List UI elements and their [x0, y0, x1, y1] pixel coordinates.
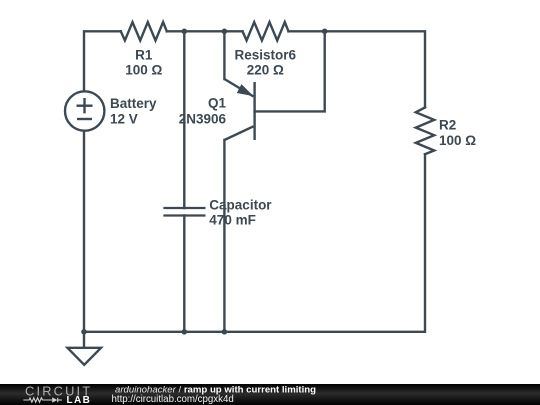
wire Q1 collector down to bottom rail — [223, 140, 225, 332]
svg-text:R1: R1 — [135, 47, 153, 62]
capacitor C1 bottom plate — [163, 214, 205, 216]
transistor Q1 collector diagonal — [224, 126, 253, 140]
svg-text:220 Ω: 220 Ω — [247, 62, 284, 77]
battery minus mark — [77, 118, 92, 120]
resistor Resistor6 — [243, 22, 289, 40]
svg-text:12 V: 12 V — [110, 112, 138, 127]
svg-text:Resistor6: Resistor6 — [235, 47, 297, 62]
resistor R2 — [416, 107, 434, 154]
transistor Q1 emitter diagonal — [224, 79, 253, 97]
junction node D (top, base branch) — [322, 29, 328, 35]
battery V1 "Battery" circle body — [65, 91, 104, 130]
svg-text:100 Ω: 100 Ω — [439, 133, 476, 148]
wire node C down to Q1 emitter — [223, 31, 225, 79]
footer bar — [0, 384, 540, 405]
junction bottom capacitor branch — [182, 329, 188, 335]
capacitor C1 top plate — [163, 207, 205, 209]
wire capacitor bottom plate to bottom rail — [183, 216, 185, 332]
svg-text:http://circuitlab.com/cpgxk4d: http://circuitlab.com/cpgxk4d — [112, 394, 234, 405]
logo resistor squiggle — [23, 398, 52, 402]
resistor R1 — [121, 22, 167, 40]
wire Q1 base to node D after Resistor6 — [255, 31, 325, 111]
wire R2 bottom to bottom rail to ground node — [84, 154, 425, 332]
svg-text:R2: R2 — [439, 117, 456, 132]
svg-text:100 Ω: 100 Ω — [125, 62, 162, 77]
junction bottom collector branch — [222, 329, 228, 335]
ground stub wire — [83, 332, 85, 348]
svg-text:LAB: LAB — [67, 395, 92, 405]
wire battery bottom to ground node — [83, 131, 85, 332]
junction node B (top, capacitor branch) — [182, 29, 188, 35]
ground symbol — [68, 348, 102, 365]
wire R1 to node B — [167, 30, 243, 32]
wire node B down to capacitor top plate — [183, 31, 185, 208]
wire battery top to node A — [84, 31, 121, 91]
svg-text:Capacitor: Capacitor — [209, 198, 272, 213]
junction node C (top, emitter branch) — [222, 29, 228, 35]
logo diode symbol — [52, 397, 57, 402]
svg-text:Q1: Q1 — [208, 96, 227, 111]
junction ground node — [81, 329, 87, 335]
svg-text:2N3906: 2N3906 — [179, 112, 227, 127]
transistor Q1 emitter arrowhead (PNP) — [238, 85, 252, 95]
battery plus mark — [77, 104, 93, 106]
wire Resistor6 to top-right corner down to R2 — [289, 31, 426, 107]
transistor Q1 base bar — [253, 82, 255, 140]
svg-text:Battery: Battery — [110, 96, 157, 111]
svg-text:470 mF: 470 mF — [209, 213, 256, 228]
